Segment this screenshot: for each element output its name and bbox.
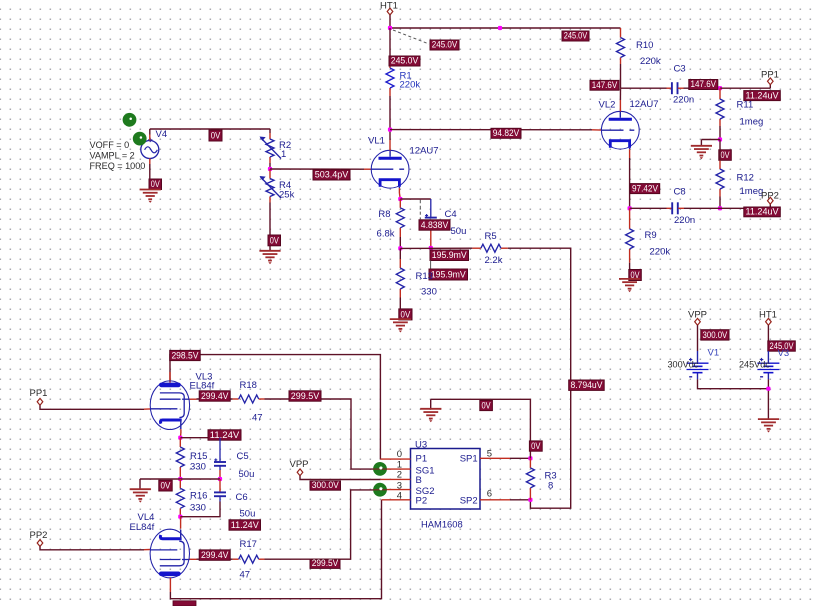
svg-text:VOFF = 0: VOFF = 0 [90,140,130,150]
svg-text:97.42V: 97.42V [632,183,659,193]
wire grid VL1 [270,168,364,170]
leader dashed 4.838V [419,200,421,219]
svg-text:245.0V: 245.0V [564,31,588,41]
resistor R16 pins [179,479,181,488]
wire R18 to U3 SG1 [265,399,381,469]
svg-text:V4: V4 [156,129,168,140]
svg-text:FREQ = 1000: FREQ = 1000 [90,161,146,171]
wire cathode to C5 [180,437,220,439]
wire R12 top [719,145,721,161]
svg-text:0V: 0V [721,150,731,160]
wire cathode node to R5 [400,247,472,249]
svg-text:12AU7: 12AU7 [410,146,439,157]
label 0V (V4 ground) [149,179,162,190]
node junction VL3 cathode [178,436,182,440]
svg-text:300Vdc: 300Vdc [668,359,699,369]
capacitor C8 [671,202,673,214]
svg-text:C4: C4 [445,209,457,220]
svg-text:VPP: VPP [290,459,309,470]
triode VL2 12AU7 [601,111,639,149]
source V3 battery [757,362,779,364]
svg-text:VL1: VL1 [368,136,385,147]
wire R1 bottom to anode node [389,96,391,130]
resistor R15 pins [179,438,181,447]
variable resistor R2 [266,139,274,157]
node junction rail mid [498,26,502,30]
label 503.4pV [313,170,350,180]
triode VL1 12AU7 [371,150,409,188]
svg-text:PP2: PP2 [30,530,48,541]
svg-text:R18: R18 [240,380,257,391]
resistor R12 pins [719,140,721,146]
svg-text:11.24V: 11.24V [210,430,240,440]
wire VL2 plate pin [619,88,621,100]
source V3 leads [767,351,769,363]
wire HT1 to V3 [767,325,769,351]
svg-text:25k: 25k [279,190,295,201]
wire VL1 plate pin [389,130,391,140]
label 0V (pin5 wire) [529,441,542,451]
wire cathode to C4 [400,198,431,200]
svg-text:8.794uV: 8.794uV [570,380,603,390]
wire V4 bottom to ground [149,159,151,165]
wire HT1 stub [389,15,391,28]
svg-text:R13: R13 [416,271,433,282]
node junction VL2 cathode [628,206,632,210]
wire V4 to R2 [150,128,270,130]
resistor R13 [396,268,404,289]
wire V3 bottom to ground [767,379,769,419]
wire R1 top [389,28,391,62]
wire VL4 cathode pin [180,517,182,529]
wire to PP1 terminal [720,87,770,89]
svg-text:195.9mV: 195.9mV [432,250,468,260]
svg-text:C3: C3 [674,64,686,75]
probe marker on pin 3 [373,483,387,497]
svg-text:V1: V1 [708,348,720,359]
capacitor C4 leads [430,199,432,217]
svg-text:0V: 0V [151,179,161,189]
svg-text:299.4V: 299.4V [201,550,229,560]
wire V1 bottom [698,379,769,388]
svg-text:U3: U3 [415,439,427,450]
label 97.42V [630,184,660,194]
svg-text:147.6V: 147.6V [691,79,717,89]
svg-text:12AU7: 12AU7 [630,99,659,110]
svg-text:220k: 220k [640,56,661,67]
node junction HT1/R1 [388,26,392,30]
node junction V1/V3 [766,387,770,391]
svg-text:94.82V: 94.82V [493,128,520,138]
svg-text:R16: R16 [190,491,207,502]
label 245.0V (on R1 wire) [389,56,420,66]
svg-text:P2: P2 [416,496,428,507]
svg-text:C6: C6 [236,492,248,503]
svg-text:0V: 0V [211,131,221,141]
label 147.6V (left) [590,80,619,90]
capacitor C5 bottom pin [219,470,221,479]
capacitor C6 top pin [219,479,221,492]
svg-text:0V: 0V [401,310,411,320]
svg-text:R9: R9 [645,230,657,241]
svg-text:330: 330 [421,287,437,298]
svg-text:50u: 50u [240,509,256,520]
U3 pin 5 [480,457,510,459]
transformer U3 box [411,449,481,510]
wire R8 bottom [399,237,401,248]
node junction R12/C8 [718,206,722,210]
capacitor C8 right pin [678,207,684,209]
ground (V3) [758,418,779,420]
label 0V (R13) [399,309,412,320]
leader 195.9mV lower [430,261,432,270]
label 11.24uV (PP2) [744,207,781,217]
ground (U3) [420,408,441,410]
svg-text:VAMPL = 2: VAMPL = 2 [90,151,135,161]
label 4.838V [419,220,450,230]
probe marker 1 [123,113,137,127]
label 299.5V (R18) [289,391,321,401]
node junction R15/R16 [178,477,182,481]
node junction R11/R12 [718,137,722,141]
wire ground rail (R15/R16) [140,478,220,480]
ground (V4) [140,189,161,191]
wire R5 to long vertical [508,248,571,508]
resistor R10 pins [620,28,622,38]
wire V4 top [149,135,151,141]
resistor R5 [481,244,501,252]
svg-text:R5: R5 [485,231,497,242]
wire VL3 plate rail [170,355,380,460]
U3 pin 0 [380,458,410,460]
wire VL3 screen pin [190,398,197,400]
label 0V (R11-R12) [719,150,732,161]
svg-text:0V: 0V [531,441,541,451]
label 94.82V [491,128,521,138]
resistor R3 pins [529,458,531,468]
svg-text:300.0V: 300.0V [703,330,728,340]
svg-text:P1: P1 [416,454,428,465]
wire VL2 cathode pin [629,149,631,158]
resistor R18 [239,395,259,403]
svg-text:0V: 0V [161,481,172,491]
svg-text:330: 330 [190,503,206,514]
svg-text:C8: C8 [674,187,686,198]
wire screen to R17 [197,558,233,560]
svg-text:R17: R17 [240,539,257,550]
ground (R9) [619,278,640,280]
svg-text:V3: V3 [778,348,790,359]
label 245.0V (on rail) [562,31,589,41]
node junction R16/VL4 cathode [178,515,182,519]
wire R9 to ground [629,263,631,279]
wire VL4 screen pin [190,558,197,560]
wire R2-R4 [269,163,271,169]
capacitor C4 bottom pin [430,227,432,249]
svg-text:300.0V: 300.0V [312,480,340,490]
wire VPP to V1 [697,325,699,351]
node junction R2/R4 [268,167,272,171]
svg-text:147.6V: 147.6V [592,80,618,90]
resistor R9 pins [629,208,631,229]
svg-text:SP2: SP2 [460,496,478,507]
node junction C3/R11 [718,86,722,90]
label 299.4V (VL4) [199,550,230,560]
wire screen to R18 [197,398,233,400]
label 11.24uV (PP1) [744,91,781,101]
svg-text:220k: 220k [400,80,421,91]
label 147.6V (right) [689,80,718,90]
svg-text:47: 47 [240,570,251,581]
source V1 battery [687,362,709,364]
node junction C5 bottom [218,477,222,481]
wire pin5 node to ground [431,399,531,458]
label 245.0V (leader) [430,40,459,50]
wire R17 to U3 SG2 [265,490,381,559]
svg-text:4.838V: 4.838V [421,220,449,230]
resistor R17 pins [233,558,239,560]
svg-text:299.5V: 299.5V [291,391,320,401]
resistor R1 [386,68,394,88]
capacitor C3 right pin [678,87,684,89]
svg-text:HAM1608: HAM1608 [421,519,463,530]
svg-text:6: 6 [487,489,492,500]
wire R13 to ground [399,298,401,320]
svg-text:R10: R10 [636,40,653,51]
svg-text:245Vdc: 245Vdc [739,359,770,369]
label 299.4V (VL3) [199,391,230,401]
resistor R16 [176,488,184,508]
svg-text:PP1: PP1 [30,388,48,399]
U3 pin 4 [382,499,411,501]
resistor R17 [239,555,259,563]
svg-text:330: 330 [190,461,206,472]
svg-text:VL2: VL2 [599,100,616,111]
wire R11 bottom [719,126,721,140]
label 0V (R9) [629,270,642,281]
ground (R13) [390,318,411,320]
label 300.0V (VPP) [310,481,341,490]
node junction R8/R13 [398,246,402,250]
label 0V (R15/R16) [159,480,172,491]
svg-text:47: 47 [252,413,263,424]
label 11.24V (VL3) [208,430,241,440]
capacitor C5 leads [219,438,221,462]
wire R2 top [269,129,271,133]
ground (R11) [691,145,712,147]
resistor R13 pins [399,259,401,268]
wire VL1 cathode pin [398,188,400,193]
U3 pin 3 [380,489,410,491]
svg-text:1meg: 1meg [740,186,764,197]
leader dashed to 245.0V label [393,30,429,44]
sine source V4 [141,141,159,159]
variable resistor R2 pins [269,133,271,139]
label 11.24V (VL4) [229,520,261,530]
wire VL3 cathode pin [180,429,182,433]
svg-text:503.4pV: 503.4pV [315,170,349,180]
svg-text:195.9mV: 195.9mV [431,270,467,280]
U3 pin 6 [480,499,510,501]
svg-text:1: 1 [281,149,286,160]
wire HT1 rail to R10 [390,27,621,29]
resistor R8 [396,208,404,228]
wire anode to C3 [621,87,667,89]
resistor R1 pins [389,62,391,68]
svg-text:8: 8 [548,480,553,491]
label fragment (bottom edge) [173,601,196,606]
node junction VL1 cathode [398,197,402,201]
svg-text:6.8k: 6.8k [377,229,395,240]
svg-text:0V: 0V [482,400,492,410]
wire PP1 to VL3 grid [40,405,144,409]
svg-text:2.2k: 2.2k [485,255,503,266]
resistor R15 [176,447,184,467]
capacitor C4 [425,217,437,219]
node junction pin6/R3 [528,498,532,502]
wire anode to VL2 grid [390,129,592,131]
svg-text:SP1: SP1 [460,454,478,465]
capacitor C3 [671,82,673,94]
resistor R11 [716,99,724,119]
node junction pin5/R3 [528,456,532,460]
svg-text:50u: 50u [239,469,255,480]
label 0V (ground wire) [480,400,493,410]
resistor R12 [716,169,724,189]
pentode VL4 EL84f [150,529,189,578]
wire R4 to ground [269,203,271,251]
label 299.5V (R17) [310,560,340,569]
resistor R3 [526,468,534,488]
variable resistor R4 pins [269,169,271,179]
ground (R15/R16) [130,488,151,490]
svg-text:C5: C5 [237,451,249,462]
node junction VL1 anode [388,128,392,132]
svg-text:B: B [416,475,422,486]
wire R10 to VL2 anode node [620,64,622,88]
node junction C4 bottom [429,246,433,250]
probe marker on pin 1 [373,462,387,476]
svg-text:220n: 220n [674,215,695,226]
capacitor C5 [214,461,226,463]
svg-text:R11: R11 [737,100,754,111]
wire VPP to U3 B [300,476,380,480]
probe marker 2 [133,132,147,146]
svg-text:11.24uV: 11.24uV [746,207,780,217]
capacitor C6 [214,491,226,493]
pentode VL3 EL84f [150,381,189,430]
svg-text:299.5V: 299.5V [312,558,339,568]
U3 pin 2 [380,478,410,480]
svg-text:220n: 220n [673,94,694,105]
wire to PP2 terminal [720,207,770,209]
resistor R18 pins [233,398,239,400]
resistor R8 pins [399,199,401,208]
resistor R10 [617,38,625,58]
label 195.9mV (lower) [429,269,468,280]
U3 pin 1 [380,468,410,470]
wire VL4 plate pin [169,578,171,592]
label 195.9mV (upper) [430,250,469,261]
wire VL4 plate rail to U3 P2 [170,500,381,599]
svg-text:11.24V: 11.24V [231,520,260,530]
svg-text:220k: 220k [650,247,671,258]
label 300.0V (V1) [701,330,729,340]
svg-text:245.0V: 245.0V [432,40,458,50]
label 8.794uV [569,380,605,390]
svg-text:R8: R8 [378,209,390,220]
svg-text:EL84f: EL84f [130,522,155,533]
svg-text:299.4V: 299.4V [201,391,229,401]
wire C6 bottom to cathode node [180,502,220,517]
resistor R9 [626,229,634,249]
label 245.0V (V3) [768,341,796,351]
wire PP2 to VL4 grid [40,546,144,549]
resistor R5 pins [472,247,481,249]
variable resistor R4 [266,179,274,197]
source V1 leads [697,351,699,363]
svg-text:R12: R12 [737,173,754,184]
label 0V (V4 wire) [209,130,222,141]
svg-text:1meg: 1meg [740,117,764,128]
svg-text:245.0V: 245.0V [391,56,419,66]
svg-text:0V: 0V [270,236,280,246]
svg-text:EL84f: EL84f [190,381,215,392]
capacitor C6 leads [219,496,221,501]
ground (R4) [259,250,280,252]
label 0V (R4) [268,235,281,246]
wire to ground (R11) [701,139,720,141]
resistor R11 pins [719,88,721,99]
wire R12 bottom [719,197,721,209]
svg-text:50u: 50u [451,226,467,237]
resistor R13 wire [399,248,401,259]
wire cathode to C8 [630,207,667,209]
svg-text:298.5V: 298.5V [171,350,199,360]
